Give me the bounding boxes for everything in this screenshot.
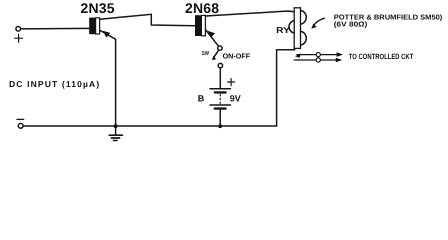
svg-text:ON-OFF: ON-OFF (223, 51, 251, 60)
terminal - input (17, 119, 24, 128)
switch SW (212, 46, 223, 68)
svg-text:2N68: 2N68 (185, 0, 219, 16)
ground (109, 126, 122, 140)
svg-text:(6V 80Ω): (6V 80Ω) (334, 21, 368, 29)
wire Q2 collector to relay (206, 11, 294, 16)
wire bottom rail (23, 48, 294, 126)
battery B 9V (210, 89, 231, 126)
relay contact lower (294, 58, 342, 63)
relay RY coil (289, 8, 306, 49)
svg-text:TO CONTROLLED CKT: TO CONTROLLED CKT (349, 52, 414, 61)
callout arrow (311, 18, 324, 28)
wire switch to battery (219, 68, 221, 89)
terminal + input (15, 27, 23, 43)
transistor Q2 2N68 (195, 15, 205, 36)
transistor Q1 2N35 (89, 18, 99, 35)
wire Q2 emitter (206, 30, 219, 46)
label + battery (228, 79, 235, 86)
wire Q1 collector to Q2 base (100, 14, 195, 25)
junction battery bottom (218, 124, 222, 128)
relay contact upper (295, 52, 343, 58)
junction ground (114, 124, 118, 128)
svg-text:RY: RY (276, 25, 290, 35)
svg-text:9V: 9V (230, 94, 241, 104)
svg-text:2N35: 2N35 (81, 0, 115, 16)
svg-text:DC INPUT (110µA): DC INPUT (110µA) (9, 79, 100, 89)
wire Q1 emitter (100, 30, 116, 126)
svg-text:SW: SW (202, 50, 210, 57)
svg-text:B: B (198, 94, 205, 104)
wire input to Q1 base (21, 27, 89, 30)
